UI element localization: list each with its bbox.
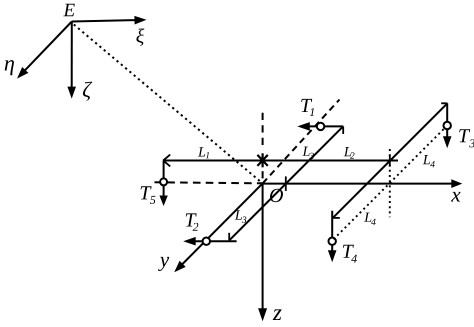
axis y <box>158 183 263 272</box>
tick at beam1 bottom end <box>228 233 230 241</box>
dash segment between asterisk and origin <box>262 171 264 178</box>
label T1 <box>301 99 314 116</box>
force T5 arrow down <box>159 185 167 206</box>
axis eta from E <box>5 22 72 79</box>
label L3 upper <box>302 147 313 160</box>
tick at beam2 crossing of dimension line <box>389 155 391 167</box>
node E label <box>63 4 75 16</box>
dimension line <box>164 160 398 162</box>
dotted line T4 pin to T3 pin (L4) <box>334 127 446 239</box>
drop line from dimension line to T5 pin <box>163 161 165 182</box>
tick on x axis at beam1 crossing <box>285 176 287 191</box>
label T5 <box>141 186 156 204</box>
beam 2 <box>333 103 448 218</box>
T4 pin circle <box>329 238 336 245</box>
label L4 upper <box>423 155 435 167</box>
tick at beam2 bottom end <box>333 217 340 219</box>
label T3 <box>459 129 474 147</box>
axis x <box>263 179 463 201</box>
force T4 arrow down <box>328 211 337 263</box>
label L2 <box>344 147 355 159</box>
axis xi from E <box>72 16 147 46</box>
label T2 <box>186 213 199 230</box>
stick arrowhead at left end of dimension line <box>163 155 170 167</box>
T5 pin circle <box>160 178 167 185</box>
beam 1 <box>230 126 344 240</box>
force T1 arrow left <box>297 122 343 131</box>
tick at beam1 top end <box>342 126 344 134</box>
T3 pin circle <box>444 122 451 129</box>
T1 pin circle <box>317 123 324 130</box>
vertical dotted projection line <box>389 149 391 217</box>
label L1 <box>198 147 209 158</box>
force T2 arrow left <box>183 237 236 246</box>
label O (origin) <box>270 189 283 202</box>
vertical dashed line above asterisk <box>262 113 264 148</box>
dotted sight line E to O <box>74 25 263 184</box>
force T3 arrow down <box>443 103 452 148</box>
dashed line T5 pin to O <box>155 182 263 183</box>
asterisk marker on dimension line <box>257 153 267 167</box>
dashed diagonal O toward T1 attach (L3) <box>263 100 340 184</box>
T2 pin circle <box>203 238 210 245</box>
axis z <box>258 184 282 322</box>
label L4 lower <box>364 213 376 225</box>
tick at beam2 top end <box>441 102 447 104</box>
axis zeta from E <box>67 22 92 101</box>
label L3 lower <box>235 210 247 223</box>
label T4 <box>343 245 357 263</box>
